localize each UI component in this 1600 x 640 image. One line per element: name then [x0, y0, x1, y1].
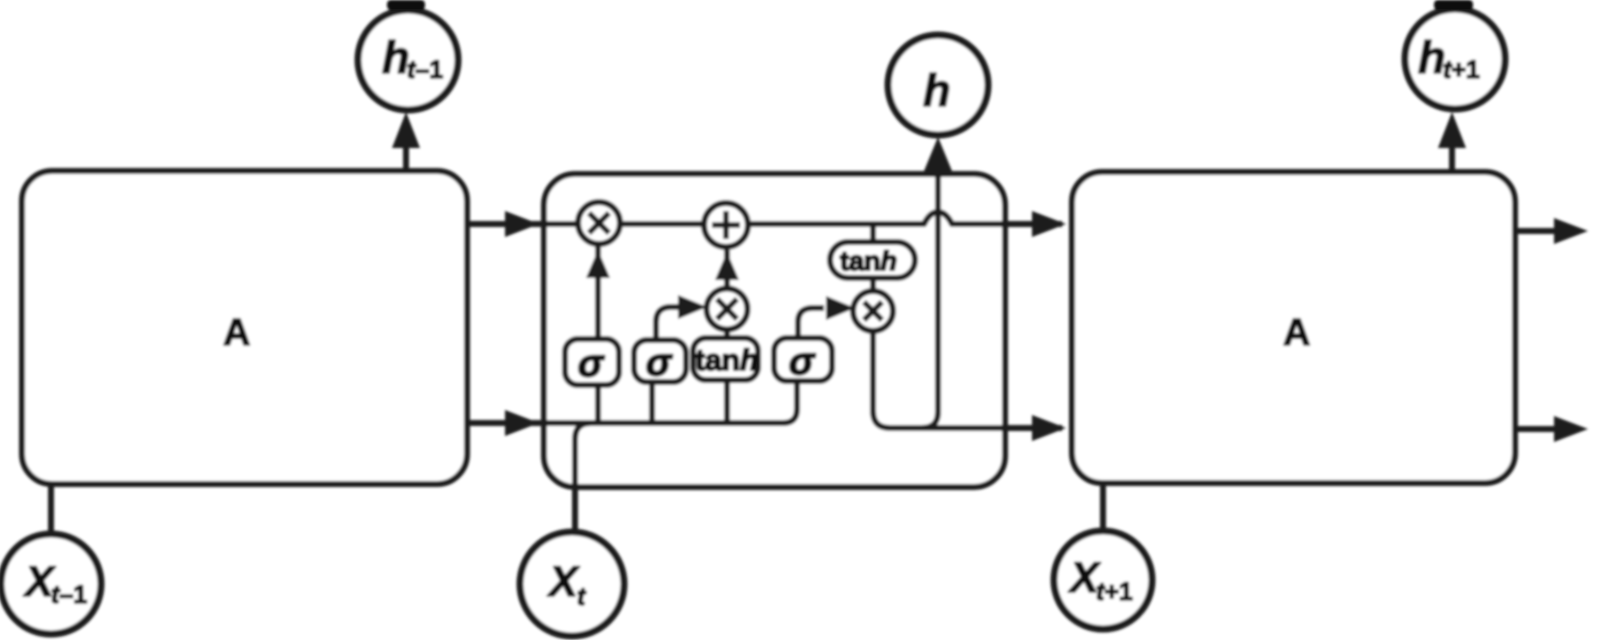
svg-text:t–1: t–1 — [407, 56, 443, 84]
svg-text:h: h — [382, 32, 410, 83]
svg-text:tanh: tanh — [695, 344, 758, 377]
svg-text:X: X — [547, 558, 580, 606]
svg-text:σ: σ — [646, 342, 673, 384]
svg-text:σ: σ — [578, 343, 605, 385]
svg-text:σ: σ — [789, 341, 816, 383]
svg-text:tanh: tanh — [840, 246, 897, 276]
svg-text:h: h — [923, 65, 951, 116]
svg-text:h: h — [1418, 32, 1446, 83]
svg-text:A: A — [223, 312, 250, 354]
svg-text:t+1: t+1 — [1443, 56, 1480, 84]
svg-text:t–1: t–1 — [51, 581, 87, 609]
svg-text:A: A — [1283, 312, 1310, 354]
svg-text:t+1: t+1 — [1096, 578, 1133, 606]
